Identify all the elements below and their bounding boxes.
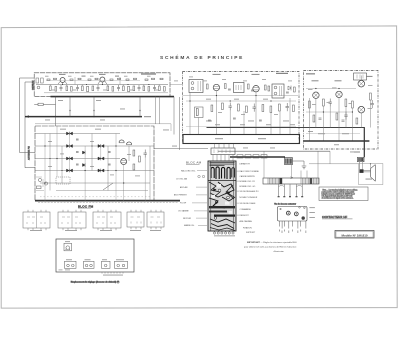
svg-text:RETOUR: RETOUR	[183, 218, 192, 220]
junction dot d1	[44, 145, 45, 146]
trimmer 5 label	[116, 258, 124, 261]
block D bottom dash shadow	[38, 201, 178, 203]
label B top 5	[262, 78, 266, 81]
tower body background	[208, 161, 236, 231]
contacteur pin 7	[300, 221, 302, 227]
tower gang capacitor plates	[210, 163, 235, 166]
right row 4 arrow	[236, 180, 239, 182]
line label s2	[240, 123, 245, 126]
svg-text:NOYAU PLONGEUR: NOYAU PLONGEUR	[240, 196, 258, 199]
resistor R24	[238, 104, 240, 111]
wire B h2	[186, 100, 296, 102]
T FM screw	[66, 246, 70, 250]
V6 cross	[359, 81, 364, 86]
long distribution line y127.5	[207, 127, 365, 129]
voltage mark +2	[93, 110, 95, 112]
pack 2 divider	[71, 212, 73, 228]
capacitor Ca7	[110, 79, 113, 80]
voltage label l1	[58, 99, 63, 102]
prong curve a	[279, 185, 285, 188]
terminal t3	[221, 232, 223, 234]
V2 grid lines	[253, 88, 258, 90]
drive bar hatch right 1	[301, 178, 309, 184]
wire TR right lead	[361, 162, 363, 170]
pack 3 inner marks	[97, 217, 115, 224]
prong foot 1	[278, 196, 280, 197]
svg-text:PU. BF: PU. BF	[180, 203, 187, 205]
resistor R4	[71, 87, 73, 92]
label tick b1	[52, 89, 56, 92]
junction dot b	[93, 116, 94, 117]
tower coil loop 2	[216, 167, 219, 179]
resistor R33	[352, 101, 354, 108]
pin label 3	[284, 230, 285, 232]
wire A vertical v2	[119, 77, 121, 85]
left cluster circle 2	[44, 182, 47, 185]
tower white patch 2	[211, 195, 215, 198]
V4 cross	[314, 93, 318, 97]
bus inner label 1	[215, 138, 223, 139]
left cluster circle 1	[38, 178, 41, 181]
junction dot B5	[189, 100, 190, 101]
wire drop x307	[306, 171, 308, 179]
bottom scale ticks	[102, 272, 123, 274]
wire antenna top h1	[20, 77, 35, 79]
contacteur pin 4	[288, 221, 290, 229]
voltage mark +3	[139, 110, 141, 112]
speaker cone lower	[371, 177, 376, 181]
svg-text:FIXATION: FIXATION	[243, 227, 252, 230]
pin label 2	[282, 231, 283, 234]
label B mid 1	[206, 98, 211, 101]
model box outer	[335, 231, 374, 239]
junction dot d2	[56, 158, 57, 159]
block B outline	[183, 72, 300, 144]
wire C drop 3	[322, 106, 324, 141]
CONTACTEUR HF underline	[322, 218, 353, 220]
tower terminals row	[213, 231, 234, 234]
heavy HT line	[25, 116, 142, 118]
pack 4 label	[130, 229, 141, 232]
label top strip	[141, 73, 156, 74]
T3 coil top	[274, 86, 277, 89]
capacitor Cd1	[76, 139, 79, 140]
svg-text:CONTACTEUR HF: CONTACTEUR HF	[322, 215, 348, 219]
terminal t1	[217, 232, 219, 234]
V2 label	[252, 74, 260, 75]
diode pair D5	[98, 144, 104, 148]
tower inner vertical right	[233, 161, 235, 231]
tower inner vertical left	[210, 161, 212, 231]
bottom scale label	[103, 274, 123, 277]
wafer 1 hub	[288, 213, 289, 214]
resistor R53	[265, 85, 267, 90]
output transformer TR	[358, 157, 365, 161]
pack 1 pins bottom	[28, 228, 46, 230]
diode pair D4	[67, 169, 73, 173]
prong foot 3	[289, 196, 291, 197]
V1 label	[213, 74, 221, 75]
T1 coil top	[191, 82, 194, 85]
label B low 2	[248, 120, 254, 123]
location box	[56, 239, 134, 272]
V5 label	[335, 80, 342, 81]
coil pack 4	[127, 212, 144, 227]
wire B left outer	[179, 97, 181, 150]
V4 label	[312, 80, 319, 81]
resistor R27	[270, 106, 272, 113]
contacteur pin 5	[292, 221, 294, 227]
junction dot d10	[107, 170, 108, 171]
wire D v15	[107, 146, 109, 191]
tower triangle t1	[213, 188, 217, 192]
capacitor C2	[76, 85, 79, 91]
wire C drop 5	[338, 98, 340, 141]
svg-text:BLOC FM: BLOC FM	[78, 204, 94, 208]
drive bar outline	[263, 178, 319, 184]
resistor R1	[50, 86, 52, 91]
speaker enclosure outline	[359, 164, 383, 185]
junction dot A2	[86, 84, 87, 85]
label B top 6	[288, 80, 292, 83]
wire C h top	[306, 88, 356, 90]
tube V7	[358, 106, 365, 113]
svg-text:AXE CADRAN: AXE CADRAN	[240, 220, 253, 223]
resistor R40a	[133, 150, 135, 156]
capacitor Cd5	[108, 164, 111, 165]
junction dot B1	[216, 95, 217, 96]
terminal labels	[214, 234, 235, 237]
pack 1 pins top	[28, 210, 46, 212]
side label 3	[309, 216, 315, 219]
tower scribble m6	[222, 197, 235, 201]
wire y151 drop c	[317, 151, 319, 178]
junction dot d7	[123, 182, 124, 183]
label C v6a	[368, 84, 373, 87]
trimmer 4	[102, 261, 111, 268]
capacitor Cd2	[76, 152, 79, 153]
label tick a1	[45, 75, 49, 78]
label C low	[318, 132, 325, 135]
resistor R2	[55, 87, 57, 92]
wire D v9	[144, 158, 146, 201]
wire antenna into FM bloc 2	[25, 167, 35, 169]
pack 5 inner marks	[151, 217, 162, 224]
label Ld5	[90, 165, 94, 168]
wire B drop 3	[215, 91, 217, 135]
connector lug 4	[261, 155, 267, 158]
label C r3	[349, 102, 353, 105]
volume pot box	[195, 107, 204, 118]
prong foot 4	[296, 196, 298, 197]
voltage label end	[144, 116, 151, 117]
wire B drop 6	[255, 92, 257, 135]
wire B drop 7	[270, 113, 272, 135]
tower triangle t2	[227, 191, 231, 195]
trimmer 2 screw b	[72, 264, 75, 267]
tube D1a	[60, 78, 65, 83]
wire B h3	[186, 126, 296, 128]
resistor R9	[123, 86, 125, 91]
svg-text:MASSE CH.: MASSE CH.	[184, 224, 195, 227]
wire D v2	[56, 126, 58, 177]
block B top label	[276, 73, 288, 74]
wire C drop 2	[315, 98, 317, 127]
speaker cone upper	[371, 165, 376, 169]
tower coil loop 3	[222, 167, 225, 178]
junction dot A3	[102, 84, 103, 85]
junction dot sp	[370, 163, 371, 164]
output coupling box	[354, 73, 367, 80]
resistor R28	[279, 104, 281, 111]
connector lug 2	[245, 155, 251, 158]
wire y151 drop d	[329, 151, 331, 164]
wire pair from block A right b	[159, 97, 161, 124]
tube V2	[253, 86, 259, 92]
label B low 1	[206, 120, 212, 123]
resistor R11	[143, 86, 145, 91]
heavy vertical x364	[363, 127, 365, 157]
speaker magnet	[359, 169, 363, 173]
wire ground drop	[303, 165, 305, 167]
wire B drop 9	[289, 98, 291, 135]
trimmer 3	[84, 261, 95, 268]
corner mark 2	[65, 269, 70, 272]
svg-text:DEPART HT: DEPART HT	[240, 162, 251, 165]
pack 4 pins top	[131, 210, 141, 212]
contacteur pin 8	[305, 221, 307, 229]
T1 slug marks	[198, 81, 201, 91]
label D1a	[59, 74, 66, 75]
trimmer 4 screw	[104, 264, 107, 267]
diode detector D	[288, 86, 291, 91]
label Ld4	[90, 140, 94, 143]
wire D v4	[68, 160, 70, 168]
line label s1	[215, 123, 220, 126]
T FM dot b	[69, 249, 70, 250]
wafer circle 1	[286, 211, 290, 215]
wire drop w3	[93, 97, 95, 117]
capacitor Ca5	[88, 79, 91, 80]
pack 3 pins bottom	[98, 228, 116, 230]
side label 2	[309, 211, 315, 214]
IF transformer T1	[189, 80, 203, 93]
resistor R40 power	[285, 158, 293, 165]
junction dot C1	[315, 88, 316, 89]
resistor R35	[313, 115, 315, 122]
label V mid	[82, 76, 86, 77]
resistor R21	[196, 109, 198, 116]
trimmer 5	[115, 261, 128, 268]
left label row 8 arrow	[198, 224, 207, 226]
resistor R29	[293, 105, 295, 112]
capacitor Ca3	[70, 79, 73, 80]
svg-text:BLOC AM: BLOC AM	[186, 161, 202, 165]
feeder box marks	[214, 150, 230, 154]
svg-text:pour obtenir 0,5 volts aux bor: pour obtenir 0,5 volts aux bornes de R40…	[244, 246, 297, 249]
trimmer T FM	[64, 243, 72, 251]
diode pair D2	[67, 144, 73, 148]
wire B drop 4	[229, 111, 231, 135]
label Ld1	[48, 140, 52, 143]
R40 hatch	[287, 158, 290, 163]
label B low 3	[283, 120, 289, 123]
terminal t4	[225, 232, 227, 234]
junction dot A4	[127, 84, 128, 85]
contacteur pin 3	[284, 221, 286, 227]
wire D v10	[128, 146, 130, 161]
resistor R15 on stub	[38, 103, 43, 105]
wire gap AB	[170, 83, 183, 85]
capacitor C14	[228, 89, 231, 90]
wire antenna vertical 2	[24, 82, 26, 168]
wire C drop 6	[345, 107, 347, 128]
label tick a4	[124, 75, 128, 78]
tower scribble m5	[209, 198, 225, 208]
pack 3 divider	[106, 212, 108, 228]
pack 2 label	[65, 229, 77, 232]
block D heavy bottom	[35, 200, 180, 202]
label C r2	[327, 101, 331, 104]
wire A drop i2	[66, 85, 68, 87]
drive bar hatch left	[268, 178, 279, 184]
tower scribble b3	[210, 228, 235, 231]
label Ld2	[60, 153, 64, 156]
potentiometer diagonal	[103, 183, 113, 190]
svg-text:CV OSC. AM: CV OSC. AM	[176, 178, 187, 181]
small hole 2	[304, 207, 306, 209]
wire bus A2	[44, 92, 168, 94]
wire contacteur to speaker	[309, 163, 359, 165]
trimmer T FM label	[65, 240, 70, 243]
bus inner label 2	[258, 138, 266, 139]
trimmer symbol b	[202, 175, 204, 177]
coil pack 5	[147, 212, 164, 227]
line label s10	[334, 143, 339, 146]
line label s9	[308, 130, 313, 133]
label C v4a	[308, 88, 313, 91]
pin label 1	[279, 230, 280, 232]
trimmer 2	[65, 261, 77, 268]
wire D v14	[91, 134, 93, 171]
speaker link bottom	[364, 171, 371, 173]
capacitor Ca4	[78, 78, 81, 79]
tower coil loop 5	[232, 168, 235, 178]
left label row 4 arrow	[196, 194, 207, 196]
coil L4	[128, 87, 130, 92]
trimmer 4 label	[102, 258, 107, 261]
T3 coil bottom	[274, 92, 277, 95]
tube V4	[313, 92, 319, 98]
tube D1a pins	[58, 82, 67, 86]
resistor R22	[211, 105, 213, 112]
wire bus A1	[36, 84, 168, 86]
tower mid screw 2	[227, 196, 230, 199]
coil pack 2	[58, 212, 86, 228]
capacitor C20	[329, 99, 332, 107]
line label s7	[243, 147, 248, 150]
resistor R32	[345, 99, 347, 107]
pack 1 inner marks	[27, 217, 45, 224]
block A thick bottom edge	[51, 96, 175, 98]
capacitor C18	[233, 118, 236, 119]
capacitor C10	[229, 103, 232, 111]
svg-text:ANT. AM: ANT. AM	[180, 186, 188, 189]
resistor R36	[336, 113, 338, 120]
pin label 4	[288, 231, 289, 234]
label tick b2	[73, 89, 77, 92]
wire A-B link vertical	[173, 97, 175, 135]
resistor R54	[268, 86, 270, 91]
svg-text:VIS DE REGLAGE PO: VIS DE REGLAGE PO	[240, 190, 260, 193]
junction dot d5	[115, 170, 116, 171]
corner mark	[59, 269, 63, 272]
svg-text:BOBINE OSC. GO: BOBINE OSC. GO	[240, 186, 256, 188]
terminal t6	[232, 232, 234, 234]
resistor R6	[92, 86, 94, 91]
wire C drop 9	[369, 100, 371, 128]
wire A drop i5	[122, 85, 124, 87]
distribution line y148.5	[154, 148, 208, 150]
wire D v6	[100, 148, 102, 157]
junction dot B3	[230, 100, 231, 101]
T FM dot a	[66, 249, 67, 250]
trimmer 3 screw a	[85, 264, 88, 267]
wire A vertical v1	[74, 77, 76, 85]
wire D h3	[35, 158, 120, 160]
wire D v13	[61, 146, 63, 183]
prong curve b	[297, 185, 303, 188]
svg-text:Emplacement du réglage (desso: Emplacement du réglage (dessous du châss…	[71, 280, 120, 283]
terminal stubs	[215, 230, 234, 233]
wire y151 drop b	[291, 165, 293, 179]
label Ld7	[127, 153, 131, 156]
left cluster marks	[36, 177, 44, 191]
wire A drop i1	[49, 85, 51, 87]
pack 4 pins bottom	[131, 227, 141, 229]
wire R15 stub	[34, 103, 55, 105]
left label row 3 arrow	[196, 186, 207, 188]
capacitor Ca12	[152, 78, 155, 79]
capacitor C12	[286, 103, 289, 111]
tube V1	[213, 84, 219, 90]
trimmer arc 2 plate	[127, 144, 132, 146]
IF transformer T2	[234, 83, 245, 93]
label B top 3	[222, 78, 226, 81]
wafer 2 hub	[296, 213, 297, 214]
pack 1 label	[30, 229, 42, 232]
wire A drop i6	[143, 85, 145, 87]
pin label 7	[300, 230, 301, 232]
label B mid 4	[218, 111, 222, 114]
resistor R42	[133, 164, 135, 170]
connector lug 3	[253, 155, 259, 158]
pack 2 inner marks	[62, 217, 80, 224]
voltage label l2	[96, 99, 101, 102]
svg-text:IMPORTANT — Régler la résistan: IMPORTANT — Régler la résistance ajustab…	[247, 241, 297, 244]
tower triangle t3	[215, 201, 219, 205]
bus bar rectangle	[183, 135, 300, 144]
tower coil loop 4	[227, 167, 230, 179]
wire antenna top h2	[25, 81, 34, 83]
wire A mid h	[46, 80, 140, 82]
wire y151 drop a	[263, 151, 265, 178]
wire C drop 1	[308, 98, 310, 141]
svg-text:COMMANDE: COMMANDE	[240, 208, 252, 211]
connector lug 1	[237, 155, 243, 158]
pack 1 divider	[36, 212, 38, 228]
block C outline	[304, 71, 379, 150]
